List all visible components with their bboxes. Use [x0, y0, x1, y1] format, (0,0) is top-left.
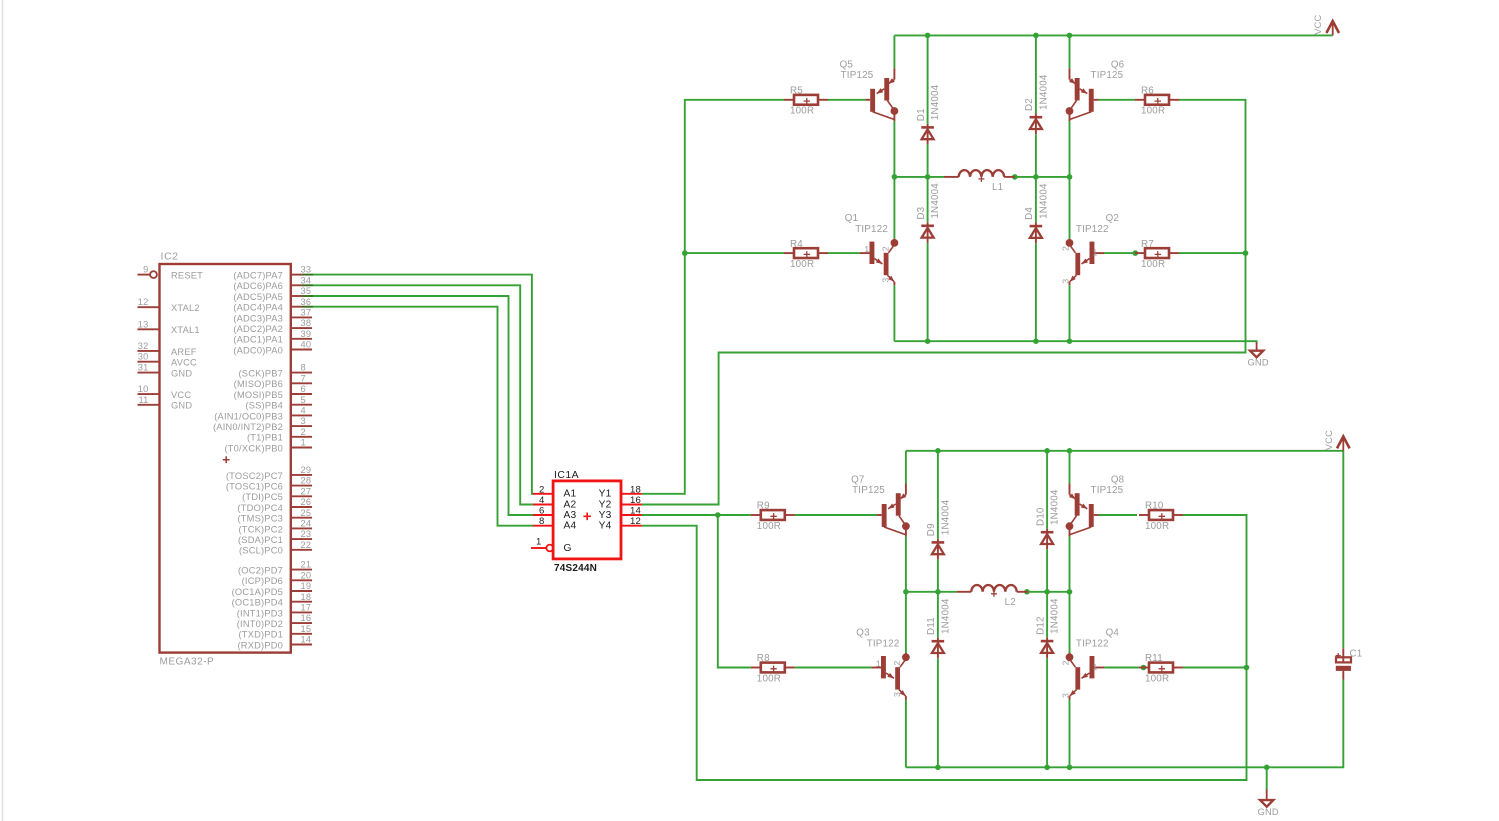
IC2 pin 34 (ADC6)PA6	[233, 275, 313, 291]
IC2 pin 25 (TMS)PC3	[237, 508, 312, 524]
wire mid rail L1	[894, 176, 1069, 178]
junction bottom-bridge mid rail right	[1067, 589, 1073, 595]
svg-text:29: 29	[301, 465, 312, 475]
svg-text:GND: GND	[1258, 807, 1279, 817]
IC2 pin 10 VCC	[138, 384, 192, 400]
svg-text:20: 20	[301, 570, 312, 580]
IC2 pin 7 (MISO)PB6	[234, 373, 312, 389]
IC2 pin 35 (ADC5)PA5	[233, 286, 313, 302]
svg-text:11: 11	[138, 395, 148, 405]
transistor Q4 TIP122	[1061, 627, 1120, 699]
svg-text:22: 22	[301, 540, 312, 550]
svg-text:8: 8	[301, 363, 306, 373]
svg-text:3: 3	[301, 416, 306, 426]
svg-text:A3: A3	[564, 510, 577, 521]
svg-text:(T1)PB1: (T1)PB1	[247, 433, 283, 443]
svg-text:L2: L2	[1005, 597, 1016, 608]
wire GND2 drop	[1266, 767, 1268, 790]
junction mid rail left	[892, 174, 898, 180]
IC2 pin 6 (MOSI)PB5	[234, 384, 312, 400]
svg-text:Q1: Q1	[845, 213, 858, 224]
svg-text:(ADC1)PA1: (ADC1)PA1	[233, 335, 283, 345]
IC2 pin 22 (SCL)PC0	[239, 540, 312, 556]
diode D11 1N4004	[926, 598, 951, 658]
svg-text:100R: 100R	[1145, 673, 1169, 684]
junction bottom-bridge rail Q8	[1067, 448, 1073, 454]
svg-text:25: 25	[301, 508, 312, 518]
svg-text:14: 14	[630, 506, 642, 517]
svg-text:(TXD)PD1: (TXD)PD1	[239, 630, 283, 640]
svg-text:37: 37	[301, 308, 312, 318]
svg-text:D1: D1	[916, 108, 927, 121]
svg-text:18: 18	[630, 484, 641, 495]
svg-text:(AIN0/INT2)PB2: (AIN0/INT2)PB2	[213, 422, 283, 432]
IC2 pin 12 XTAL2	[138, 297, 200, 313]
svg-text:16: 16	[630, 495, 641, 506]
svg-text:18: 18	[301, 592, 312, 602]
resistor R11 100R	[1139, 653, 1183, 684]
IC2 pin 11 GND	[138, 395, 193, 411]
svg-text:TIP125: TIP125	[1091, 485, 1124, 496]
diode D12 1N4004	[1035, 598, 1060, 658]
junction mid rail right	[1067, 174, 1073, 180]
svg-text:1: 1	[864, 244, 869, 254]
svg-text:3: 3	[892, 692, 902, 697]
transistor Q6 TIP125	[1066, 59, 1125, 121]
IC2 pin 14 (RXD)PD0	[237, 635, 312, 651]
svg-text:(ADC5)PA5: (ADC5)PA5	[233, 292, 283, 302]
inductor L1	[944, 170, 1015, 193]
IC1A pin 2 A1	[532, 484, 576, 499]
svg-text:1: 1	[536, 537, 542, 548]
IC2 pin 38 (ADC2)PA2	[233, 318, 312, 334]
wire D2/D4 column	[1035, 35, 1037, 341]
svg-text:38: 38	[301, 318, 312, 328]
junction bottom-bridge mid rail D9	[935, 589, 941, 595]
junction bottom rail Q2	[1067, 338, 1073, 344]
wire VCC rail bottom bridge	[906, 450, 1343, 452]
svg-text:33: 33	[301, 265, 312, 275]
svg-text:12: 12	[630, 516, 641, 527]
svg-text:(ADC0)PA0: (ADC0)PA0	[233, 345, 283, 355]
transistor Q8 TIP125	[1066, 475, 1125, 537]
svg-text:14: 14	[301, 635, 312, 645]
svg-text:1: 1	[876, 658, 881, 668]
wire Q8 base to R10	[1099, 514, 1138, 516]
svg-text:(TCK)PC2: (TCK)PC2	[239, 524, 283, 534]
wire net Y1: IC1A Y1 to R5 and R4	[642, 100, 784, 494]
svg-text:TIP122: TIP122	[1076, 638, 1109, 649]
supply GND	[1258, 790, 1279, 817]
resistor R7 100R	[1135, 239, 1179, 270]
svg-text:15: 15	[301, 624, 312, 634]
svg-text:2: 2	[892, 661, 902, 666]
junction bottom rail Q4	[1067, 765, 1073, 771]
IC1A pin 4 A2	[532, 495, 576, 510]
wire net A2: IC2 pin34 PA6 to IC1A A2	[313, 285, 533, 504]
svg-text:6: 6	[301, 384, 306, 394]
IC IC1A 74S244N	[553, 470, 621, 574]
svg-text:1: 1	[1093, 248, 1098, 258]
svg-text:Q4: Q4	[1106, 627, 1120, 638]
svg-text:16: 16	[301, 613, 312, 623]
wire Q4 base to R11	[1104, 667, 1139, 669]
svg-text:6: 6	[539, 506, 545, 517]
svg-text:30: 30	[138, 352, 149, 362]
svg-text:1N4004: 1N4004	[930, 183, 941, 219]
diode D10 1N4004	[1035, 489, 1060, 549]
svg-text:VCC: VCC	[1313, 14, 1323, 34]
svg-text:1N4004: 1N4004	[940, 598, 951, 634]
transistor Q2 TIP122	[1061, 213, 1119, 285]
svg-text:Y3: Y3	[599, 510, 612, 521]
svg-text:Y2: Y2	[599, 499, 612, 510]
junction bottom-bridge mid rail left	[903, 589, 909, 595]
svg-text:2: 2	[1061, 660, 1071, 665]
svg-text:(OC1A)PD5: (OC1A)PD5	[232, 587, 283, 597]
diode D3 1N4004	[916, 183, 941, 243]
junction L1 lead	[1012, 174, 1018, 180]
svg-text:5: 5	[301, 395, 306, 405]
svg-text:100R: 100R	[1141, 259, 1165, 270]
svg-text:(TMS)PC3: (TMS)PC3	[237, 514, 283, 524]
wire D9/D11 column	[937, 451, 939, 768]
resistor R5 100R	[784, 86, 828, 117]
resistor R8 100R	[751, 653, 795, 684]
IC1A pin 12 Y4	[599, 516, 642, 531]
svg-text:GND: GND	[1247, 358, 1268, 368]
svg-text:GND: GND	[171, 401, 192, 411]
svg-text:D10: D10	[1035, 507, 1046, 526]
wire VCC rail top bridge	[894, 34, 1332, 36]
IC2 pin 21 (OC2)PD7	[238, 560, 312, 576]
wire Q7 collector column	[905, 451, 907, 768]
IC2 pin 15 (TXD)PD1	[239, 624, 312, 640]
junction bottom rail D12	[1044, 765, 1050, 771]
IC2 pin 18 (OC1B)PD4	[232, 592, 312, 608]
svg-text:1N4004: 1N4004	[1050, 598, 1061, 634]
IC2 pin 16 (INT0)PD2	[237, 613, 312, 629]
wire D1/D3 column	[927, 35, 929, 341]
wire Q2 base to R7	[1104, 252, 1135, 254]
svg-text:(MOSI)PB5: (MOSI)PB5	[234, 390, 283, 400]
svg-text:(SCL)PC0: (SCL)PC0	[239, 546, 283, 556]
svg-text:R7: R7	[1141, 239, 1154, 250]
svg-text:(SS)PB4: (SS)PB4	[245, 401, 283, 411]
svg-text:RESET: RESET	[171, 271, 203, 281]
svg-text:100R: 100R	[757, 521, 781, 532]
wire R4 to Q1 base	[828, 252, 860, 254]
svg-text:1: 1	[301, 438, 306, 448]
diode D9 1N4004	[926, 499, 951, 559]
IC2 pin 33 (ADC7)PA7	[233, 265, 313, 281]
svg-text:35: 35	[301, 286, 312, 296]
IC1A pin 16 Y2	[599, 495, 642, 510]
svg-text:TIP122: TIP122	[855, 224, 888, 235]
svg-text:A2: A2	[564, 499, 577, 510]
IC2 pin 1 (T0/XCK)PB0	[224, 438, 312, 454]
svg-text:4: 4	[539, 495, 545, 506]
svg-text:10: 10	[138, 384, 149, 394]
IC1A pin 14 Y3	[599, 506, 642, 521]
svg-text:26: 26	[301, 497, 312, 507]
svg-text:31: 31	[138, 363, 149, 373]
svg-text:G: G	[564, 543, 572, 554]
wire net Y2: IC1A Y2 to R6 and R7	[642, 100, 1246, 505]
svg-text:Q6: Q6	[1111, 59, 1125, 70]
transistor Q5 TIP125	[840, 59, 899, 121]
svg-text:39: 39	[301, 329, 312, 339]
junction bottom-bridge rail D10	[1044, 448, 1050, 454]
IC2 pin 2 (T1)PB1	[247, 427, 312, 443]
diode D1 1N4004	[916, 84, 941, 144]
wire Q5 collector column	[893, 35, 895, 341]
svg-text:74S244N: 74S244N	[554, 563, 597, 574]
svg-text:IC1A: IC1A	[554, 470, 579, 481]
junction Y4/R11	[1244, 665, 1250, 671]
diode D4 1N4004	[1024, 183, 1049, 243]
wire Q8 collector column	[1069, 451, 1071, 768]
supply VCC	[1324, 430, 1350, 451]
junction GND2	[1264, 765, 1270, 771]
svg-text:D2: D2	[1024, 98, 1035, 111]
svg-text:(TOSC2)PC7: (TOSC2)PC7	[226, 471, 283, 481]
svg-text:100R: 100R	[1145, 521, 1169, 532]
IC2 pin 19 (OC1A)PD5	[232, 581, 312, 597]
wire net A1: IC2 pin33 PA7 to IC1A A1	[313, 275, 533, 494]
junction Y1/R4	[682, 250, 688, 256]
svg-text:3: 3	[881, 278, 891, 283]
resistor R10 100R	[1139, 501, 1183, 532]
IC2 pin 36 (ADC4)PA4	[233, 297, 313, 313]
svg-text:3: 3	[1061, 279, 1071, 284]
svg-text:(AIN1/OC0)PB3: (AIN1/OC0)PB3	[214, 411, 283, 421]
svg-text:12: 12	[138, 297, 149, 307]
svg-text:9: 9	[143, 265, 148, 275]
resistor R6 100R	[1135, 86, 1179, 117]
svg-text:(INT1)PD3: (INT1)PD3	[237, 608, 283, 618]
svg-text:(INT0)PD2: (INT0)PD2	[237, 619, 283, 629]
svg-text:(ICP)PD6: (ICP)PD6	[242, 576, 283, 586]
svg-text:2: 2	[539, 484, 545, 495]
svg-text:Q2: Q2	[1106, 213, 1119, 224]
svg-text:AREF: AREF	[171, 347, 197, 357]
svg-text:1N4004: 1N4004	[1038, 183, 1049, 219]
wire net Y3: IC1A Y3 to R9 and R8	[642, 515, 751, 668]
svg-text:Q7: Q7	[851, 475, 864, 486]
svg-text:(MISO)PB6: (MISO)PB6	[234, 379, 283, 389]
IC2 pin 37 (ADC3)PA3	[233, 308, 312, 324]
IC2 pin 39 (ADC1)PA1	[233, 329, 312, 345]
wire emitter rail top bridge to GND	[894, 341, 1256, 343]
transistor Q1 TIP122	[845, 213, 899, 285]
IC2 pin 5 (SS)PB4	[245, 395, 312, 411]
svg-text:TIP125: TIP125	[852, 485, 885, 496]
IC2 pin 26 (TDO)PC4	[237, 497, 312, 513]
IC2 pin 17 (INT1)PD3	[237, 603, 312, 619]
svg-text:100R: 100R	[1141, 106, 1165, 117]
svg-text:100R: 100R	[757, 673, 781, 684]
svg-text:32: 32	[138, 341, 149, 351]
junction bottom rail D11	[935, 765, 941, 771]
svg-text:Q3: Q3	[856, 627, 870, 638]
svg-text:17: 17	[301, 603, 312, 613]
wire D10/D12 column	[1046, 451, 1048, 768]
IC2 pin 24 (TCK)PC2	[239, 519, 312, 535]
svg-text:MEGA32-P: MEGA32-P	[160, 657, 215, 668]
supply VCC	[1313, 14, 1339, 35]
IC2 pin 23 (SDA)PC1	[238, 529, 312, 545]
svg-text:34: 34	[301, 275, 312, 285]
origin cross IC1A	[583, 513, 591, 521]
IC IC2 MEGA32-P	[160, 252, 291, 668]
wire Q6 collector column	[1069, 35, 1071, 341]
svg-text:R6: R6	[1141, 86, 1154, 97]
IC2 pin 13 XTAL1	[138, 319, 200, 335]
IC2 pin 9 RESET	[138, 265, 204, 281]
junction Y2/R7	[1243, 250, 1249, 256]
wire net A4: IC2 pin36 PA4 to IC1A A4	[313, 307, 533, 526]
svg-text:1N4004: 1N4004	[940, 499, 951, 535]
svg-text:(ADC7)PA7: (ADC7)PA7	[233, 271, 283, 281]
IC1A pin 1 G	[531, 537, 572, 554]
IC2 pin 28 (TOSC1)PC6	[226, 476, 312, 492]
svg-text:(SDA)PC1: (SDA)PC1	[238, 535, 283, 545]
junction top rail Q6	[1067, 33, 1073, 39]
IC1A pin 8 A4	[532, 516, 576, 531]
wire Q6 base to R6	[1099, 99, 1136, 101]
svg-text:(ADC6)PA6: (ADC6)PA6	[233, 281, 283, 291]
svg-text:TIP122: TIP122	[867, 638, 900, 649]
svg-text:13: 13	[138, 319, 149, 329]
svg-text:40: 40	[301, 340, 312, 350]
svg-text:(TDO)PC4: (TDO)PC4	[237, 503, 283, 513]
svg-text:R4: R4	[790, 239, 803, 250]
wire R5 to Q5 base	[828, 99, 865, 101]
svg-text:3: 3	[1061, 693, 1071, 698]
svg-text:2: 2	[881, 246, 891, 251]
svg-text:AVCC: AVCC	[171, 358, 197, 368]
wire net Y4: IC1A Y4 to R10 and R11	[642, 515, 1247, 780]
svg-text:TIP122: TIP122	[1076, 224, 1109, 235]
junction bottom-bridge mid rail D10	[1044, 589, 1050, 595]
resistor R9 100R	[751, 501, 795, 532]
origin cross IC2	[223, 456, 230, 463]
svg-text:R5: R5	[790, 86, 803, 97]
svg-text:1N4004: 1N4004	[1038, 74, 1049, 110]
svg-text:(RXD)PD0: (RXD)PD0	[237, 640, 283, 650]
inductor L2	[957, 585, 1028, 608]
svg-text:4: 4	[301, 406, 306, 416]
svg-text:19: 19	[301, 581, 312, 591]
IC2 pin 32 AREF	[138, 341, 197, 357]
svg-text:2: 2	[301, 427, 306, 437]
svg-text:2: 2	[1061, 246, 1071, 251]
svg-text:1N4004: 1N4004	[1050, 489, 1061, 525]
svg-text:R10: R10	[1145, 501, 1164, 512]
junction bottom rail D3	[925, 338, 931, 344]
svg-text:(TDI)PC5: (TDI)PC5	[242, 492, 283, 502]
capacitor C1 (polarized)	[1336, 648, 1363, 679]
svg-text:8: 8	[539, 516, 545, 527]
junction top rail D2	[1033, 33, 1039, 39]
svg-text:27: 27	[301, 486, 312, 496]
junction R7 left	[1133, 250, 1139, 256]
IC2 pin 4 (AIN1/OC0)PB3	[214, 406, 312, 422]
svg-text:XTAL2: XTAL2	[171, 303, 200, 313]
svg-text:36: 36	[301, 297, 312, 307]
junction L2 lead	[1024, 589, 1030, 595]
junction bottom-bridge rail D9	[935, 448, 941, 454]
transistor Q3 TIP122	[856, 627, 910, 699]
svg-text:(OC1B)PD4: (OC1B)PD4	[232, 598, 283, 608]
svg-text:C1: C1	[1350, 648, 1363, 659]
junction bottom rail D4	[1033, 338, 1039, 344]
svg-text:28: 28	[301, 476, 312, 486]
svg-text:D11: D11	[926, 617, 937, 635]
IC2 pin 3 (AIN0/INT2)PB2	[213, 416, 312, 432]
svg-text:D3: D3	[916, 206, 927, 219]
IC2 pin 8 (SCK)PB7	[239, 363, 312, 379]
svg-text:Y4: Y4	[599, 521, 612, 532]
junction top rail D1	[925, 33, 931, 39]
svg-text:GND: GND	[171, 369, 192, 379]
svg-text:(ADC3)PA3: (ADC3)PA3	[233, 313, 283, 323]
svg-text:21: 21	[301, 560, 312, 570]
svg-text:Q5: Q5	[840, 59, 854, 70]
svg-text:100R: 100R	[790, 259, 814, 270]
wire net A3: IC2 pin35 PA5 to IC1A A3	[313, 296, 533, 515]
svg-text:R11: R11	[1145, 653, 1163, 664]
wire R8 to Q3 base	[795, 667, 872, 669]
svg-text:24: 24	[301, 519, 312, 529]
wire R9 to Q7 base	[795, 514, 877, 516]
svg-text:Y1: Y1	[599, 489, 612, 500]
wire VCC2 to C1 top	[1342, 451, 1344, 649]
IC1A pin 6 A3	[532, 506, 576, 521]
svg-text:Q8: Q8	[1111, 475, 1125, 486]
svg-text:(T0/XCK)PB0: (T0/XCK)PB0	[224, 443, 283, 453]
IC2 pin 40 (ADC0)PA0	[233, 340, 312, 356]
transistor Q7 TIP125	[851, 475, 910, 537]
resistor R4 100R	[784, 239, 828, 270]
svg-text:100R: 100R	[790, 106, 814, 117]
IC2 pin 29 (TOSC2)PC7	[226, 465, 312, 481]
junction R11 left	[1141, 665, 1147, 671]
svg-text:23: 23	[301, 529, 312, 539]
junction mid rail D2	[1033, 174, 1039, 180]
junction mid rail D1	[925, 174, 931, 180]
supply GND	[1247, 342, 1268, 368]
IC2 pin 30 AVCC	[138, 352, 198, 368]
svg-text:A1: A1	[564, 489, 577, 500]
junction Y3/R9	[715, 512, 721, 518]
svg-text:R8: R8	[757, 653, 770, 664]
svg-text:L1: L1	[992, 182, 1003, 193]
svg-text:XTAL1: XTAL1	[171, 325, 200, 335]
IC2 pin 20 (ICP)PD6	[242, 570, 312, 586]
svg-text:A4: A4	[564, 521, 577, 532]
IC2 pin 27 (TDI)PC5	[242, 486, 312, 502]
svg-text:R9: R9	[757, 501, 770, 512]
svg-text:(OC2)PD7: (OC2)PD7	[238, 566, 283, 576]
svg-text:D12: D12	[1035, 616, 1046, 635]
svg-text:D4: D4	[1024, 207, 1035, 220]
svg-text:(ADC2)PA2: (ADC2)PA2	[233, 324, 283, 334]
svg-text:D9: D9	[926, 523, 937, 536]
svg-text:IC2: IC2	[161, 252, 179, 263]
svg-text:7: 7	[301, 373, 306, 383]
